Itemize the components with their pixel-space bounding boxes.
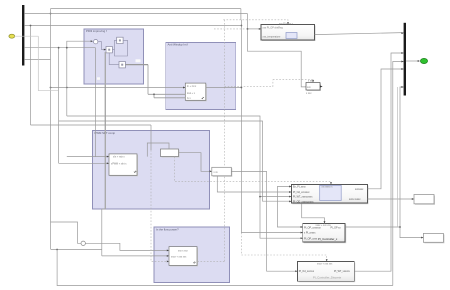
svg-text:PI_Controller_x: PI_Controller_x bbox=[318, 237, 338, 241]
wire jog to gain top bbox=[147, 143, 169, 157]
wire B1 out2 bbox=[368, 198, 414, 200]
terminator circle bbox=[81, 241, 85, 245]
wire feedback up to Q1 bbox=[115, 40, 117, 49]
svg-text:PI_WT_xxxxxx: PI_WT_xxxxxx bbox=[334, 270, 351, 273]
block B3 discrete controller 2 bbox=[298, 262, 356, 283]
label patch in box1 bbox=[136, 59, 141, 62]
svg-text:PI_OP_xxxxxxx: PI_OP_xxxxxxx bbox=[304, 226, 322, 229]
svg-text:xxx x xxx: xxx x xxx bbox=[178, 250, 189, 253]
subsystem block in box3 bbox=[109, 154, 138, 176]
wire B1 row2 feed bbox=[217, 176, 291, 192]
wire B3 out bbox=[354, 53, 403, 271]
sum circle in box1 bbox=[94, 40, 98, 44]
terminator block B bbox=[424, 234, 444, 243]
dashed wire to B1 top bbox=[175, 157, 332, 182]
wire B1 row3 feed bbox=[67, 116, 303, 238]
subsystem block in box2 bbox=[185, 83, 207, 101]
wire from inport In1 (light) bbox=[15, 36, 59, 90]
svg-text:xxx_temperature: xxx_temperature bbox=[263, 36, 281, 39]
wire bus row4 bbox=[24, 59, 50, 61]
svg-text:PI_Od_xxxxxx: PI_Od_xxxxxx bbox=[299, 270, 315, 273]
wire bus row3 to sum bbox=[24, 47, 95, 49]
dashed wire into top block left bbox=[214, 28, 248, 30]
wire box4 row1 feed bbox=[85, 243, 168, 250]
block B2 discrete controller bbox=[303, 224, 346, 244]
wire box2 in2 bbox=[148, 65, 185, 98]
wire bus row2 bbox=[24, 26, 241, 126]
junction top x50 bbox=[50, 13, 52, 15]
wire circle riser bbox=[51, 222, 82, 243]
svg-text:xxxx xxxxx: xxxx xxxxx bbox=[349, 198, 361, 201]
svg-text:PI_OP_xxxx: PI_OP_xxxx bbox=[304, 237, 318, 240]
inport In1 (yellow) bbox=[9, 34, 15, 38]
block D right of box3 bbox=[212, 167, 233, 177]
wire riser to circle bbox=[67, 41, 93, 116]
bus selector bar (left) bbox=[22, 5, 24, 66]
wire B3 top feed bbox=[241, 233, 326, 262]
svg-text:x PI_xxxxx: x PI_xxxxx bbox=[304, 232, 316, 235]
svg-text:xxxxxxx: xxxxxxx bbox=[355, 188, 364, 191]
svg-text:In + rst x: In + rst x bbox=[187, 85, 197, 88]
wire box3 in1 bbox=[67, 156, 109, 158]
subsystem box3 PWM SET comp bbox=[93, 131, 210, 210]
wire B1 row1 feed bbox=[59, 121, 292, 201]
svg-text:PID3 improving f: PID3 improving f bbox=[86, 29, 107, 33]
svg-text:PI_Controller_Discrete: PI_Controller_Discrete bbox=[313, 276, 342, 280]
svg-text:xIn + rstx x: xIn + rstx x bbox=[113, 156, 125, 159]
svg-text:xxx PI xxxx x: xxx PI xxxx x bbox=[279, 22, 294, 25]
svg-text:xx xxxxx x: xx xxxxx x bbox=[322, 185, 334, 188]
svg-text:Anti Windup Int f: Anti Windup Int f bbox=[168, 43, 189, 47]
wire branch x60 bbox=[58, 48, 60, 164]
svg-text:xxxx + xxx xxx: xxxx + xxx xxx bbox=[317, 263, 333, 266]
wire thick vertical x105 bbox=[104, 52, 106, 209]
dashed trunk x224 bbox=[197, 20, 314, 261]
svg-text:PI_OP xx: PI_OP xx bbox=[331, 226, 342, 229]
junction bottomline bbox=[56, 249, 58, 251]
svg-text:xPWM + xInt x: xPWM + xInt x bbox=[111, 163, 127, 166]
wire trunk x151 to box4 row3 bbox=[150, 125, 152, 150]
wire long vertical x50 bbox=[50, 14, 52, 250]
wire box4 row2 feed bbox=[51, 250, 169, 256]
dashed into top block bbox=[223, 20, 288, 25]
svg-text:Iout + x: Iout + x bbox=[187, 92, 196, 95]
subsystem box1 PID improving bbox=[84, 29, 144, 84]
subsystem box2 Anti Windup Int bbox=[166, 43, 236, 110]
wire box2 in1 bbox=[51, 87, 186, 89]
wire B2 out bbox=[345, 87, 403, 227]
wire D out to B3 bbox=[231, 172, 297, 272]
wire Q2 out junction bbox=[112, 49, 114, 51]
svg-text:En_PI_xxxx: En_PI_xxxx bbox=[293, 186, 306, 189]
wire vertical x397 bbox=[397, 87, 399, 227]
wire B1 out1 bbox=[368, 69, 404, 189]
wire into box3 row1 riser bbox=[95, 48, 97, 157]
terminator block A bbox=[415, 196, 435, 205]
wire bus row1 bbox=[24, 9, 247, 20]
junction B2 out bbox=[399, 226, 401, 228]
wire Q3 out thick bbox=[126, 64, 149, 66]
subsystem block in box4 bbox=[169, 247, 198, 267]
subsystem box4 In the flow power bbox=[154, 227, 230, 283]
label patch 2 in box1 bbox=[97, 77, 100, 80]
block B1 PI manager bbox=[291, 185, 368, 205]
wire box2 out bbox=[206, 87, 242, 89]
svg-text:x xxx: x xxx bbox=[306, 92, 312, 95]
unit block Q2 in box1 bbox=[106, 47, 112, 53]
wire arrowheads bbox=[91, 22, 424, 272]
wire B2 top feed bbox=[302, 203, 325, 223]
bus creator bar (right) bbox=[404, 23, 406, 96]
svg-text:PI_Od_xxxxxxx: PI_Od_xxxxxxx bbox=[293, 191, 310, 194]
junction box2 in1 bbox=[50, 87, 52, 89]
wire top block in riser bbox=[247, 14, 306, 87]
svg-text:PI_WT_xxxxxxxxx: PI_WT_xxxxxxxxx bbox=[293, 196, 313, 199]
svg-text:In the flow power?: In the flow power? bbox=[156, 228, 179, 232]
svg-text:PI_OD_xxxxxxxxxx: PI_OD_xxxxxxxxxx bbox=[293, 200, 314, 203]
wire Q1 out loop bbox=[115, 40, 128, 56]
outport Out1 (green) bbox=[406, 58, 428, 63]
top block subsystem bbox=[261, 22, 316, 41]
wire B1 row1 / B2 row1 tee bbox=[277, 187, 302, 228]
wire box3 in2 bbox=[59, 162, 109, 164]
svg-text:xxxx + xxx xxx: xxxx + xxx xxx bbox=[171, 256, 187, 259]
wire gain out bbox=[179, 153, 212, 172]
memory block bbox=[306, 80, 323, 96]
wire circle to Q2 bbox=[98, 42, 106, 50]
wire top block out bbox=[315, 33, 404, 35]
svg-text:xxx PI_OP xIntReg: xxx PI_OP xIntReg bbox=[263, 26, 284, 29]
wire to Q3 bbox=[109, 53, 119, 65]
wire thin continuation x101.8 bbox=[102, 209, 106, 256]
wire to terminator B bbox=[400, 227, 423, 238]
junction x60 bbox=[58, 47, 60, 49]
junction riser bbox=[66, 47, 68, 49]
wire B2 row2 feed bbox=[241, 20, 302, 233]
gain block in box3 bbox=[162, 150, 180, 158]
unit block Q3 in box1 bbox=[119, 62, 125, 68]
unit block Q1 in box1 bbox=[117, 37, 123, 43]
wire bottom long line bbox=[57, 62, 403, 286]
